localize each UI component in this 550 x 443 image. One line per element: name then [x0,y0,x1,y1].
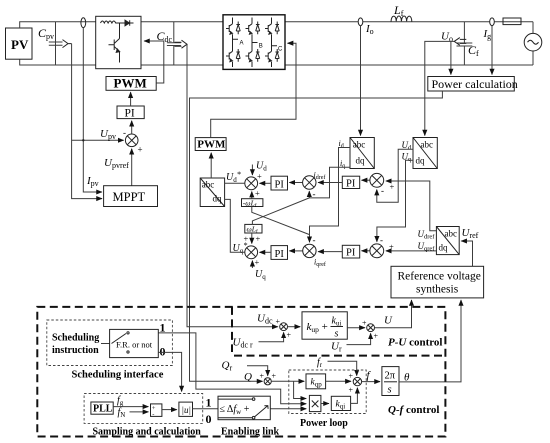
abc to dq block current [350,138,374,169]
wire top bus ac [285,21,533,23]
summing junction iq ref [303,244,316,257]
label Scheduling instruction [52,333,99,357]
wire junction q to block [225,199,245,252]
wire Ud feedforward down [251,165,253,176]
svg-text:dq: dq [439,243,449,253]
svg-text:+: + [255,188,260,198]
svg-text:abc: abc [202,180,215,190]
svg-text:Cf: Cf [468,43,479,58]
boost converter box [96,16,141,68]
inverter bridge box [223,15,285,70]
svg-text:PI: PI [346,248,356,259]
wire Udc sense down to P-U control [187,44,278,327]
wire PWM to inverter gate [211,43,296,137]
dashed box outer frequency regulation [37,307,445,437]
svg-text:PI: PI [275,249,285,260]
wire switch 0 to sampling [158,352,181,391]
capacitor Cdc [167,22,181,65]
voltage sense arrow Udc [175,40,188,48]
wire top bus dc link [141,21,223,23]
svg-text:+: + [390,182,395,192]
wire PI box to junction U [347,327,365,329]
svg-text:+: + [362,319,367,328]
grid resistor [503,18,521,25]
svg-text:+: + [349,372,354,381]
wire switch 1 to multiplier [158,333,306,404]
svg-text:Cdc: Cdc [157,29,173,44]
wire bottom bus dc link [141,64,223,66]
wire Udcr into junction [259,332,284,341]
wire abs to enabling link [193,408,219,410]
wire -wLf to junction d [251,192,253,199]
PLL box [91,402,113,415]
svg-text:U: U [384,315,393,327]
summing junction Ud ref [370,173,384,187]
current sensor Io [358,18,363,26]
svg-text:C: C [278,47,283,53]
PI box q-axis outer [342,245,359,258]
summing junction f [353,377,361,385]
svg-text:s: s [388,385,392,396]
PV array box [6,28,33,59]
wire power calc Q output [190,91,443,381]
svg-text:-ωLf: -ωLf [243,198,257,209]
wire Upv sense down [72,44,102,199]
inductor Lf [391,16,412,22]
svg-text:Ud: Ud [256,161,267,173]
grid AC source [524,33,542,51]
svg-text:PWM: PWM [114,76,147,91]
wire PV bottom stub [20,59,96,65]
svg-text:-: - [381,186,384,196]
svg-text:PI: PI [125,108,135,120]
svg-text:Io: Io [365,23,374,36]
svg-text:+: + [272,372,277,381]
wire Q error to kqp [271,380,304,382]
current sensor Ig [490,18,495,26]
wire J3 to PI [362,250,370,252]
svg-text:idref: idref [314,171,326,182]
wire MPPT to junction [131,149,133,186]
wire Ipv sense down to MPPT [83,28,102,192]
svg-text:+: + [260,372,265,381]
abc to dq block voltage [413,138,437,169]
svg-text:+: + [255,257,260,267]
svg-text:Reference voltage: Reference voltage [398,271,481,283]
svg-text:Upvref: Upvref [104,157,129,170]
gain block wLf [245,224,262,235]
svg-text:Uqref: Uqref [418,241,436,253]
svg-text:kqi: kqi [336,400,346,411]
enabling link box [218,396,270,420]
svg-text:Ipv: Ipv [86,175,99,188]
svg-text:Q: Q [244,371,252,383]
svg-text:Uq: Uq [402,152,413,164]
wire kqi to junction f [351,388,358,404]
wire Ur into junction U [347,333,371,344]
svg-text:≤ Δfw +: ≤ Δfw + [220,404,250,416]
svg-text:+: + [256,234,261,244]
wire Ig sense down to power calculation [491,26,493,75]
wire PV top stub [20,22,96,28]
svg-text:1: 1 [160,321,166,335]
svg-text:Uq: Uq [255,269,266,281]
inverter phase labels [240,41,284,53]
svg-text:Ud*: Ud* [226,170,241,184]
wire instruction to switch box [101,343,110,345]
wire f to integrator [362,381,380,383]
svg-text:B: B [259,44,263,50]
svg-text:iq: iq [340,159,345,170]
svg-text:Lf: Lf [393,3,404,18]
svg-text:iqref: iqref [314,258,326,269]
wire fN to comparator [130,411,149,413]
svg-text:0: 0 [160,345,166,359]
multiplier box [309,395,321,411]
voltage sense arrow Uo [454,38,466,46]
wire enabling link to multiplier [270,408,306,410]
svg-text:Power calculation: Power calculation [432,77,518,91]
wire PI to junction q [260,251,272,253]
summing junction Udc [280,323,288,331]
wire PWM to boost gate [144,41,164,83]
svg-text:PLL: PLL [93,404,113,415]
summing junction id ref [303,176,316,189]
PI box d-axis outer [342,176,359,189]
wire PI to J4 [318,251,342,253]
svg-text:kup +: kup + [307,321,328,334]
wire kqp to junction f [326,380,351,382]
svg-text:abc: abc [353,140,366,150]
wire Io sense down to abc/dq [360,26,362,136]
wire PLL to comparator [113,406,148,408]
svg-text:Sampling and calculation: Sampling and calculation [93,427,202,438]
svg-text:Udc: Udc [257,313,273,326]
MPPT box [104,186,158,207]
dashed partition P-U left [231,307,233,352]
svg-text:PV: PV [11,37,29,52]
boost diode [122,20,134,26]
svg-text:0: 0 [206,412,212,426]
wire bottom bus ac [285,64,533,66]
node Upv/Ipv crossing dot [82,139,84,141]
capacitor Cpv [49,22,63,65]
gain block -wLf [242,198,263,209]
power calculation box [428,77,518,92]
svg-text:-: - [152,411,154,418]
svg-text:+: + [374,332,379,341]
wire iq diagonal to wLf [252,198,309,225]
wire multiplier to kqi [321,403,329,405]
dq to abc block reference [436,227,459,255]
svg-text:dq: dq [213,194,223,204]
gain block kqp [306,374,326,389]
svg-text:dq: dq [356,156,366,166]
summing junction Upv [125,134,138,147]
svg-text:PI: PI [346,178,356,189]
svg-text:F.R. or not: F.R. or not [116,340,153,350]
PI controller box kup kui [302,312,347,340]
wire Upv branch to summing junction [72,139,124,141]
svg-text:Q-f control: Q-f control [388,404,439,416]
capacitor Cf branch [457,22,473,65]
PWM box inverter [195,138,226,151]
svg-text:Scheduling interface: Scheduling interface [72,370,164,381]
summing junction Q [264,378,271,385]
wire wLf to junction q [251,233,253,244]
wire Uo sense down to power calculation [450,41,452,74]
svg-text:dq: dq [416,156,426,166]
integrator box 2pi/s [382,367,399,396]
svg-text:instruction: instruction [52,345,99,356]
svg-text:Uref: Uref [462,227,479,240]
svg-text:-: - [123,128,126,138]
summing junction d-axis voltage [245,177,258,190]
svg-text:Ud: Ud [402,140,413,152]
wire Uref into block [461,241,472,266]
svg-text:+: + [389,242,394,252]
svg-text:PI: PI [275,180,285,191]
svg-text:kui: kui [332,316,342,328]
grid source wire [532,22,534,65]
svg-text:A: A [240,41,244,47]
wire J4 to PI q [289,250,302,252]
wire Qr into junction Q [247,366,268,376]
wire Uq feedback [377,160,413,242]
svg-text:Scheduling: Scheduling [52,333,99,344]
PWM box boost [106,76,156,91]
svg-text:PWM: PWM [197,139,226,151]
svg-text:-: - [313,235,316,245]
inverter IGBT cells [226,18,279,68]
svg-text:+: + [349,386,354,395]
wire Udref [386,181,437,231]
dq to abc block modulation [200,178,224,207]
PI box q-axis inner [271,246,288,260]
sampling dotted box [84,394,203,424]
wire id feedback [310,148,351,243]
svg-text:+: + [138,145,143,155]
power loop dotted box [289,370,366,414]
svg-text:Qr: Qr [222,360,233,373]
summing junction q-axis voltage [245,246,258,259]
svg-text:Cpv: Cpv [38,26,54,41]
boost inductor [101,21,122,23]
svg-text:fg: fg [117,395,124,407]
wire fr into junction f [328,361,357,375]
svg-text:1: 1 [206,396,212,410]
svg-text:+: + [287,331,292,340]
svg-text:abc: abc [445,229,458,239]
boost IGBT Q [109,23,120,63]
voltage sense arrow Upv [63,40,72,48]
PI box d-axis inner [271,176,288,190]
svg-text:Power loop: Power loop [300,418,348,429]
wire iq feedback [309,167,350,198]
wire junction to PI [131,121,133,134]
svg-text:Ur: Ur [331,341,342,354]
svg-text:abc: abc [421,140,434,150]
absolute value box [179,402,193,416]
scheduling interface dotted box [47,320,173,366]
dashed partition P-U bottom [234,355,445,357]
svg-text:synthesis: synthesis [416,284,459,296]
wire PI to PWM [130,92,132,106]
svg-text:|u|: |u| [182,405,191,415]
svg-text:-: - [380,235,383,245]
summing junction U [367,324,375,332]
svg-text:+: + [276,317,281,326]
svg-text:fr: fr [317,357,323,369]
wire theta to reference synthesis [399,300,461,382]
wire junction to block d [225,182,245,184]
summing junction Uq ref [370,244,384,258]
current sensor Ipv [81,18,86,28]
svg-text:kqp: kqp [311,378,323,389]
wire comparator to abs [162,409,177,411]
svg-text:Udc r: Udc r [233,337,254,350]
wire junction to PI box [288,326,301,328]
reference voltage synthesis box [391,266,484,298]
svg-text:s: s [335,329,339,340]
svg-text:f: f [367,370,372,382]
wire Uq feedforward up [251,261,253,268]
switch box F.R. or not [110,329,159,357]
wire Uo sense left and down to abc/dq [425,41,454,135]
svg-text:fN: fN [118,407,126,419]
svg-text:2π: 2π [385,371,396,382]
svg-text:Ig: Ig [483,28,492,41]
wire J2 to PI d [289,182,302,184]
wire Ud feedback [377,149,413,202]
wire id diagonal to -wLf [252,206,310,234]
wire PI to junction d [260,182,272,184]
PI box boost [117,106,144,120]
wire block to PWM [210,153,212,178]
svg-text:+: + [257,171,262,181]
wire J1 to PI [362,179,370,181]
wire PI to J2 [318,182,342,184]
wire U to reference synthesis [375,300,412,328]
wire Uqref [386,250,437,252]
svg-text:P-U control: P-U control [388,337,442,349]
wire Q error branch to multiplier [294,381,307,398]
gain block kqi [331,396,350,410]
svg-text:Upv: Upv [100,128,116,141]
comparator box [151,404,162,418]
svg-text:MPPT: MPPT [113,190,146,204]
